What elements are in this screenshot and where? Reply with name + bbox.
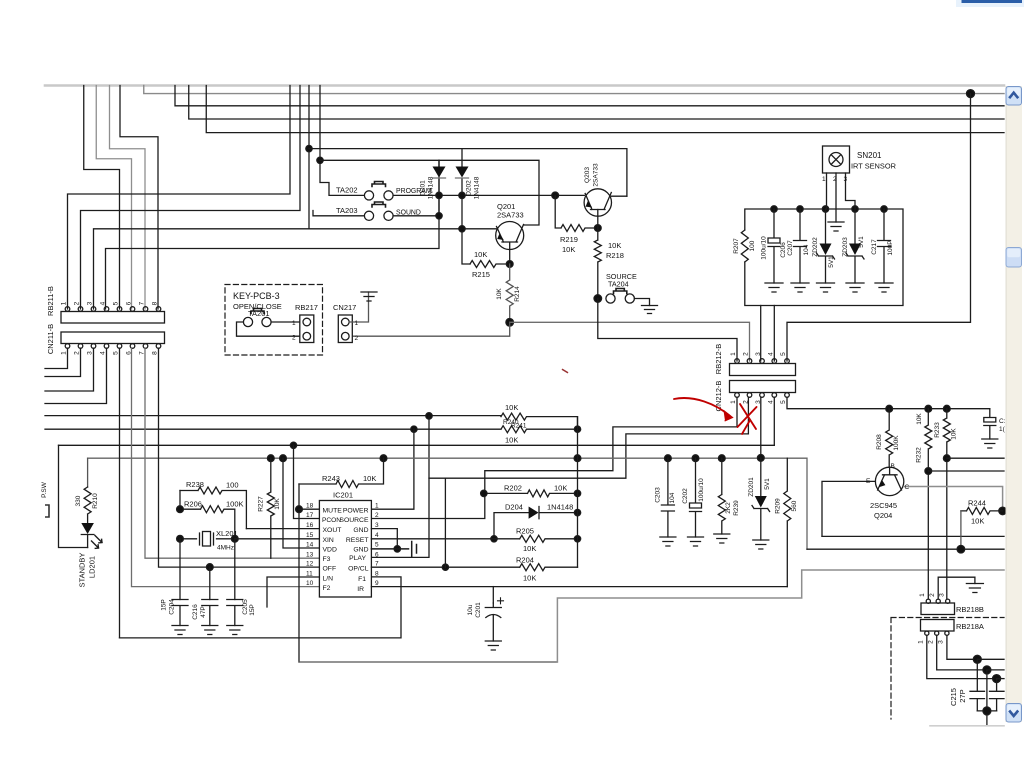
wire Q204 emitter left: [822, 481, 875, 536]
svg-text:12: 12: [306, 561, 314, 568]
wire caps bottom join: [977, 670, 996, 726]
wire CN212 pin5 to resistor bus: [787, 397, 990, 408]
svg-text:RB217: RB217: [295, 303, 318, 312]
svg-text:10K: 10K: [363, 474, 376, 483]
node R244 on y549.2: [957, 545, 965, 553]
wire gray VDD bus y458.2: [88, 458, 807, 549]
wire Q201 collector line y160.3: [320, 160, 539, 225]
svg-text:10K: 10K: [562, 245, 575, 254]
ground SN201 pin2: [828, 222, 844, 231]
svg-text:2SC945: 2SC945: [870, 501, 897, 510]
svg-text:R210: R210: [92, 493, 99, 509]
diode D202: [462, 149, 470, 264]
node caps bottom: [983, 707, 991, 715]
node ZD203 top: [852, 206, 858, 212]
svg-text:5: 5: [113, 301, 120, 305]
ground C203: [660, 537, 676, 546]
wire gray bus y93.6: [144, 86, 1004, 94]
svg-text:Q204: Q204: [874, 511, 892, 520]
wire x577.5 vertical: [577, 417, 579, 568]
svg-text:SOURCE: SOURCE: [339, 517, 369, 524]
dashed box KEY-PCB-3: [225, 285, 323, 356]
svg-text:47P: 47P: [200, 606, 207, 618]
svg-text:10K: 10K: [496, 288, 503, 300]
wire RB211 pin3 line to Q201 emitter: [94, 229, 497, 309]
wire RB211 pin4 line: [106, 160, 440, 309]
svg-text:IC201: IC201: [333, 491, 353, 500]
capacitor C202: [690, 458, 702, 537]
svg-text:10K: 10K: [951, 428, 958, 440]
ground C232: [982, 439, 998, 448]
wire pin11 L/N: [267, 577, 319, 607]
svg-text:D201: D201: [420, 180, 427, 196]
svg-text:5: 5: [780, 352, 787, 356]
capacitor C207: [794, 209, 807, 283]
svg-text:KEY-PCB-3: KEY-PCB-3: [233, 291, 280, 301]
svg-text:4MHz: 4MHz: [217, 545, 234, 552]
svg-text:16: 16: [306, 522, 314, 529]
resistor R218: [594, 210, 601, 299]
svg-text:6: 6: [126, 301, 133, 305]
svg-text:2K2: 2K2: [725, 502, 732, 514]
switch TA204: [606, 294, 615, 303]
svg-text:2SA733: 2SA733: [593, 163, 600, 187]
svg-text:2: 2: [355, 335, 359, 342]
scrollbar up button: [1006, 87, 1022, 106]
wire LED net long line y445.3: [59, 444, 775, 446]
svg-text:PCON: PCON: [322, 517, 341, 524]
svg-text:R206: R206: [184, 500, 202, 509]
capacitor C217: [878, 209, 891, 283]
svg-text:R244: R244: [968, 499, 986, 508]
node R202 left: [481, 490, 487, 496]
node R232 top: [925, 405, 932, 412]
node Q203 emitter / R218 top: [594, 225, 601, 232]
svg-text:5: 5: [375, 542, 379, 549]
capacitor C216: [202, 600, 218, 626]
node C206 top: [771, 206, 777, 212]
svg-text:2: 2: [74, 351, 81, 355]
resistor R202: [484, 490, 578, 497]
LED arrows: [92, 536, 103, 549]
node C216 tap on OFF line: [206, 564, 213, 571]
resistor R244: [961, 507, 1003, 514]
rail MUTE bottom y662: [299, 661, 557, 663]
svg-text:5V1: 5V1: [828, 256, 835, 268]
svg-text:4: 4: [375, 532, 379, 539]
node Q201 collector line junction: [317, 157, 323, 163]
svg-text:VDD: VDD: [323, 547, 337, 554]
wire CN211 pin5 down to F1 rail: [119, 348, 121, 638]
connector RB211-B: [61, 312, 165, 324]
resistor R232: [925, 409, 932, 599]
svg-text:C217: C217: [871, 239, 878, 255]
svg-text:100u/10: 100u/10: [761, 236, 768, 260]
node R205 right: [574, 536, 580, 542]
wire CN211 pin6 down to F2 line: [132, 348, 320, 586]
annotation red arrow: [563, 370, 757, 435]
svg-text:100: 100: [749, 240, 756, 251]
svg-text:100P: 100P: [887, 240, 894, 255]
node on gray bus top right: [967, 90, 975, 98]
wire step bundle 2 (gray) to RB211 pin6: [96, 86, 131, 310]
svg-text:C204: C204: [169, 599, 176, 615]
svg-text:6: 6: [126, 351, 133, 355]
diode D201: [438, 160, 440, 216]
svg-text:R209: R209: [775, 498, 782, 514]
svg-text:OP/CL: OP/CL: [348, 566, 369, 573]
svg-text:100: 100: [226, 481, 239, 490]
svg-text:R232: R232: [916, 447, 923, 463]
connector stub left edge: [45, 505, 49, 517]
svg-text:GND: GND: [353, 547, 368, 554]
wire C204 riser: [179, 539, 181, 600]
svg-text:1: 1: [355, 320, 359, 327]
connector CN217: [338, 315, 352, 343]
svg-text:R239: R239: [733, 500, 740, 516]
resistor R233: [943, 409, 950, 599]
switch TA202: [364, 191, 373, 200]
svg-text:C205: C205: [242, 599, 249, 615]
ground C207: [791, 283, 809, 292]
node ZD202 top: [822, 206, 828, 212]
wire CN212 pin1 path: [371, 397, 737, 518]
svg-text:1: 1: [292, 320, 296, 327]
svg-text:10K: 10K: [505, 436, 518, 445]
wire riser x309 from top: [308, 86, 310, 229]
svg-text:ZD201: ZD201: [748, 477, 755, 497]
wire step bundle 4 to RB211 pin8: [120, 86, 158, 310]
svg-text:10K: 10K: [474, 250, 487, 259]
connector RB217: [300, 315, 314, 343]
ground C205: [227, 626, 243, 635]
svg-text:10K: 10K: [274, 498, 281, 510]
node D202-PROGRAM: [459, 192, 465, 198]
node x429 on y415.6: [426, 413, 432, 419]
wire Q203 collector line y148.6: [309, 149, 627, 197]
svg-text:1N4148: 1N4148: [474, 176, 481, 199]
svg-text:1: 1: [730, 352, 737, 356]
svg-text:R215: R215: [472, 270, 490, 279]
node R239 top: [718, 455, 725, 462]
resistor R205 on RESET line: [371, 535, 577, 542]
ground ZD201: [753, 540, 769, 549]
wire sensor box bottom to RB212 pin4: [773, 306, 775, 362]
wire RB218A pin2: [937, 635, 987, 670]
resistor R238: [180, 487, 246, 529]
svg-text:PLAY: PLAY: [349, 555, 366, 562]
svg-text:560: 560: [791, 500, 798, 511]
svg-text:11: 11: [306, 571, 313, 578]
wire RB218B pin2 to ground: [938, 577, 975, 599]
svg-text:2: 2: [929, 593, 936, 597]
wire sensor box bottom to RB212 pin3: [760, 306, 762, 362]
svg-text:R218: R218: [606, 251, 624, 260]
top page border line: [45, 84, 1004, 87]
connector RB212-B: [730, 364, 796, 376]
svg-text:R202: R202: [504, 484, 522, 493]
zener ZD203: [846, 209, 864, 283]
svg-text:CN217: CN217: [333, 303, 356, 312]
wire TA204 node to RB212 pin1: [598, 299, 737, 362]
capacitor C201 electrolytic: [485, 603, 501, 641]
resistor R210: [84, 487, 91, 523]
svg-text:GND: GND: [353, 527, 368, 534]
svg-text:10K: 10K: [608, 241, 621, 250]
svg-text:TA203: TA203: [336, 206, 358, 215]
svg-text:1: 1: [919, 593, 926, 597]
ground C202: [688, 537, 704, 546]
node R232 line y471: [925, 468, 932, 475]
svg-text:2: 2: [74, 301, 81, 305]
node pin1 line: [993, 675, 1001, 683]
node C203 top: [665, 455, 672, 462]
node D201-PROGRAM: [436, 192, 442, 198]
svg-text:1: 1: [822, 176, 826, 183]
annotation red fleck: [563, 370, 568, 373]
svg-text:C207: C207: [787, 240, 794, 256]
wire CN212 pin3 to gray bus: [760, 397, 762, 458]
svg-text:7: 7: [375, 561, 379, 568]
wire riser x429 to IC pin6: [371, 416, 429, 558]
svg-text:MUTE: MUTE: [323, 508, 343, 515]
svg-text:15P: 15P: [249, 604, 256, 616]
svg-text:1: 1: [918, 640, 925, 644]
svg-text:17: 17: [306, 512, 314, 519]
svg-text:2: 2: [743, 400, 750, 404]
resistor R227: [267, 458, 274, 558]
node D201-SOUND: [436, 213, 442, 219]
capacitor C204: [172, 600, 188, 626]
wire CN212 pin2 path: [429, 397, 748, 478]
transistor Q204: [875, 467, 903, 495]
svg-text:7: 7: [139, 351, 146, 355]
svg-text:3: 3: [87, 301, 94, 305]
svg-text:1: 1: [375, 503, 379, 510]
node R227 top: [267, 455, 274, 462]
svg-text:15P: 15P: [161, 599, 168, 611]
wire RB218A pin1: [927, 635, 997, 678]
svg-text:XOUT: XOUT: [323, 527, 342, 534]
svg-text:C203: C203: [655, 487, 662, 503]
wire C201 riser: [492, 587, 494, 603]
node R206 left: [177, 506, 184, 513]
svg-text:4: 4: [767, 352, 774, 356]
node D204 right: [574, 509, 580, 515]
scrollbar track: [1006, 86, 1023, 722]
transistor Q203: [584, 189, 611, 216]
wire pin3 GND jog: [371, 529, 397, 549]
wire CN217 pin1 to ground: [349, 292, 368, 322]
svg-text:R243: R243: [322, 474, 340, 483]
wire step bundle 3 (gray) to RB211 pin7: [110, 86, 146, 310]
svg-text:CN211-B: CN211-B: [46, 324, 55, 354]
svg-text:R205: R205: [516, 527, 534, 536]
wire gray to RB212 pin2: [510, 322, 750, 361]
capacitor C215b: [990, 679, 1005, 711]
zener ZD201: [752, 458, 770, 540]
svg-text:2: 2: [833, 176, 837, 183]
node pin17 riser on LED line: [290, 442, 296, 448]
node R215/Q201 base/R214: [506, 261, 513, 268]
svg-text:R219: R219: [560, 235, 578, 244]
svg-text:2: 2: [743, 352, 750, 356]
svg-text:5V1: 5V1: [764, 478, 771, 490]
svg-text:SN201: SN201: [857, 151, 882, 160]
svg-text:R233: R233: [934, 422, 941, 438]
wire pin2 line right: [987, 669, 1004, 671]
node c215a top: [973, 655, 981, 663]
wire TA201 loop to RB217 pin2: [237, 322, 301, 336]
svg-text:3: 3: [375, 522, 379, 529]
node x577.5 bus: [574, 455, 581, 462]
svg-text:5: 5: [113, 351, 120, 355]
svg-text:IRT SENSOR: IRT SENSOR: [851, 162, 896, 171]
resistor R239: [718, 458, 725, 534]
wire pin5 GND with cap stub: [371, 542, 416, 557]
LED LD201: [81, 523, 94, 534]
dashed box RB218A region: [891, 618, 1004, 720]
wire left edge line y429.2 with 10K resistor: [45, 426, 578, 433]
resistor R204: [520, 564, 578, 571]
svg-text:4: 4: [100, 301, 107, 305]
svg-text:LD201: LD201: [88, 556, 97, 578]
wire bus y119: [189, 86, 1004, 120]
svg-text:TA204: TA204: [608, 280, 629, 289]
node Q203 collector line junction: [306, 145, 312, 151]
svg-text:C216: C216: [192, 604, 199, 620]
wire vertical from top-right node down to RB212 pin5 line: [787, 94, 971, 361]
zener ZD202: [817, 209, 835, 283]
ground R239: [714, 534, 730, 543]
svg-text:C215: C215: [949, 688, 958, 706]
wire VDD riser: [283, 458, 319, 548]
connector CN211-B: [61, 332, 165, 344]
svg-text:4: 4: [100, 351, 107, 355]
ground C206: [765, 283, 783, 292]
wire C216 riser: [209, 567, 211, 599]
wire TA201 to RB217 pin1: [271, 321, 300, 323]
wire TA203 feed: [313, 211, 364, 216]
wire RB211 pin2 line: [81, 86, 301, 310]
wire TA204 to ground: [634, 299, 649, 306]
wire y458.2 right segment: [947, 457, 1004, 459]
svg-text:5: 5: [780, 400, 787, 404]
svg-text:F2: F2: [323, 585, 331, 592]
svg-text:3: 3: [755, 352, 762, 356]
svg-text:14: 14: [306, 542, 314, 549]
node x413.9 on y429.2: [411, 426, 417, 432]
node MUTE pin18: [296, 506, 303, 513]
wire SN201 pin1: [826, 173, 828, 209]
svg-text:R214: R214: [514, 286, 521, 302]
svg-text:C201: C201: [475, 602, 482, 618]
svg-text:1: 1: [61, 351, 68, 355]
wire CN211 pin7 down to F3 line: [145, 348, 319, 558]
svg-text:R208: R208: [876, 434, 883, 450]
svg-text:L/N: L/N: [323, 576, 334, 583]
svg-text:2SA733: 2SA733: [497, 211, 524, 220]
wire CN211 pin3 out: [45, 348, 94, 391]
node C217 top: [881, 206, 887, 212]
wire riser x320 TA202 feed: [320, 86, 364, 196]
svg-text:TA201: TA201: [248, 309, 270, 318]
wire pin3 line right: [977, 658, 1004, 660]
wire R244 left riser: [960, 511, 962, 549]
wire left edge line y415.6 with 10K resistor: [45, 413, 578, 429]
svg-text:RB218B: RB218B: [956, 605, 984, 614]
svg-text:B: B: [891, 463, 895, 470]
svg-text:104: 104: [803, 244, 810, 255]
wire pin1 line right: [997, 678, 1004, 680]
svg-text:100K: 100K: [226, 500, 244, 509]
wire pin17 PCON riser: [294, 445, 320, 518]
svg-text:XIN: XIN: [323, 537, 334, 544]
node R233 top: [943, 405, 950, 412]
svg-text:D204: D204: [505, 503, 523, 512]
ground TA204: [642, 306, 658, 314]
wire bus y536.4: [822, 535, 1004, 537]
svg-text:3: 3: [87, 351, 94, 355]
svg-text:C202: C202: [682, 488, 689, 504]
svg-text:104: 104: [669, 492, 676, 503]
switch TA203: [364, 211, 373, 220]
wire CN211 pin8 down to OFF line: [159, 348, 320, 567]
wire RB211 pin1 line: [68, 86, 291, 310]
diode D204: [494, 507, 578, 539]
scrollbar thumb: [1006, 248, 1022, 268]
wire pin9 IR long line: [371, 586, 787, 588]
svg-text:100u/10: 100u/10: [698, 478, 705, 502]
IC IC201 body: [319, 501, 371, 598]
wire SOUND line: [393, 215, 439, 217]
capacitor C215: [970, 659, 985, 711]
svg-text:13: 13: [306, 552, 314, 559]
svg-text:7: 7: [139, 301, 146, 305]
svg-text:3: 3: [938, 640, 945, 644]
svg-text:6: 6: [375, 552, 379, 559]
wire XOUT line: [246, 528, 319, 530]
capacitor C203: [661, 458, 674, 537]
svg-text:1: 1: [730, 400, 737, 404]
node crystal right: [231, 535, 238, 542]
svg-text:D202: D202: [466, 180, 473, 196]
svg-text:R204: R204: [516, 556, 534, 565]
wire C205 riser: [234, 539, 236, 600]
svg-text:RB218A: RB218A: [956, 622, 984, 631]
svg-text:2: 2: [292, 335, 296, 342]
ground ZD203: [846, 283, 864, 292]
svg-text:8: 8: [152, 301, 159, 305]
scrollbar down button: [1006, 704, 1022, 723]
wire riser x413.9 to IC pin1: [371, 429, 414, 509]
connector RB218A: [921, 620, 955, 632]
svg-text:10K: 10K: [523, 574, 536, 583]
resistor R208: [886, 409, 893, 468]
ground ZD202: [817, 283, 835, 292]
svg-text:POWER: POWER: [343, 508, 369, 515]
svg-text:R207: R207: [733, 238, 740, 254]
svg-text:1N4148: 1N4148: [428, 176, 435, 199]
ground RB218B: [966, 584, 983, 593]
svg-text:C:: C:: [999, 418, 1006, 425]
resistor R243: [299, 458, 384, 487]
node R214 bottom: [506, 319, 514, 327]
sensor box outline: [745, 209, 903, 306]
wire y471 right segment: [928, 470, 1004, 472]
svg-text:IR: IR: [357, 586, 364, 593]
wire gray step to right: [557, 570, 1004, 662]
